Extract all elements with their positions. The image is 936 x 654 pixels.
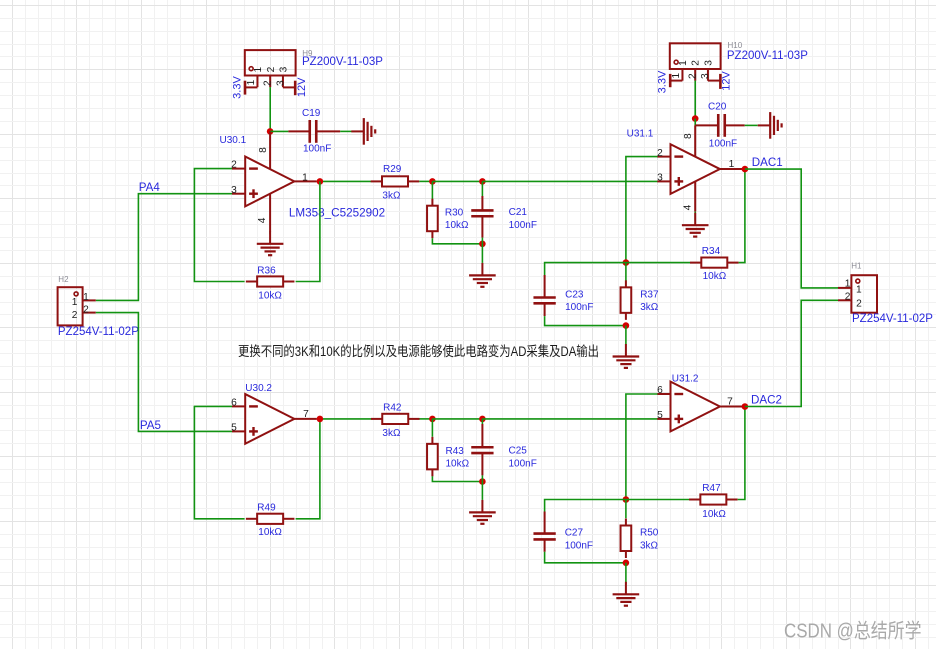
pin number 8 — [258, 147, 269, 153]
svg-text:12V: 12V — [296, 77, 308, 97]
connector H10 pin number 1 — [671, 73, 682, 79]
wire U31.2 in- to node G — [626, 394, 658, 500]
value R30 10k — [445, 220, 469, 231]
svg-text:10kΩ: 10kΩ — [446, 458, 470, 469]
connector H9 name — [302, 56, 383, 68]
capacitor C27 — [533, 512, 555, 552]
junction C25 bottom — [479, 478, 486, 485]
ground — [469, 263, 496, 287]
svg-text:R47: R47 — [702, 483, 721, 494]
svg-text:10kΩ: 10kΩ — [702, 509, 726, 520]
svg-text:1: 1 — [845, 279, 851, 290]
svg-text:R34: R34 — [702, 246, 721, 257]
pin number 3 — [657, 172, 663, 183]
value R42 3k — [382, 428, 401, 439]
wire R47 to DAC2 — [738, 407, 745, 500]
op-amp U30.1 — [232, 131, 317, 231]
wire node D to ground — [625, 326, 627, 345]
power flag 12V — [283, 81, 295, 96]
connector H9 pin name 2 — [266, 66, 277, 72]
wire node Hn to ground — [625, 563, 627, 584]
svg-text:C20: C20 — [708, 101, 727, 112]
wire C19 to ground — [340, 130, 351, 132]
svg-text:U30.1: U30.1 — [220, 135, 247, 146]
pin number 3 — [231, 185, 237, 196]
svg-text:3: 3 — [657, 172, 663, 183]
wire C21 bottom to ground — [481, 238, 483, 263]
resistor R30 — [427, 199, 438, 239]
junction node B — [479, 178, 486, 185]
ground — [351, 118, 375, 145]
svg-text:100nF: 100nF — [509, 458, 537, 469]
wire node G to R47 — [626, 499, 690, 501]
op-amp U31.2 — [657, 382, 742, 432]
value R43 10k — [446, 458, 470, 469]
connector H10 pin name 1 — [678, 60, 689, 66]
label R30 — [445, 208, 464, 219]
svg-text:2: 2 — [691, 60, 702, 66]
power flag 3.3V — [670, 74, 682, 87]
wire H9.2 to C19 node — [269, 87, 271, 131]
svg-text:R50: R50 — [640, 528, 659, 539]
svg-text:100nF: 100nF — [509, 220, 537, 231]
svg-text:R30: R30 — [445, 208, 464, 219]
svg-text:3.3V: 3.3V — [232, 76, 244, 99]
svg-text:8: 8 — [258, 147, 269, 153]
label U31.1 — [627, 128, 654, 139]
svg-text:1: 1 — [302, 172, 308, 183]
svg-text:10kΩ: 10kΩ — [258, 527, 282, 538]
capacitor C25 — [471, 424, 493, 475]
wire pin4 to ground — [269, 232, 271, 235]
svg-text:7: 7 — [303, 409, 309, 420]
svg-text:10kΩ: 10kΩ — [703, 271, 727, 282]
connector H10 pin number 3 — [700, 73, 711, 79]
connector H9 refdes — [302, 49, 313, 58]
svg-text:2: 2 — [856, 299, 862, 310]
resistor R49 — [246, 514, 295, 524]
svg-text:6: 6 — [657, 385, 663, 396]
power flag 3.3V — [245, 81, 257, 95]
junction DAC1 — [742, 166, 749, 173]
wire node to C19 — [270, 130, 288, 132]
pin number 7 — [303, 409, 309, 420]
label R42 — [383, 403, 402, 414]
wire node C left to C23 — [545, 263, 626, 275]
pin number 8 — [683, 133, 694, 139]
wire node C down to R37 — [625, 263, 627, 282]
pin number 1 — [302, 172, 308, 183]
pin number 2 — [231, 160, 237, 171]
junction node G — [623, 496, 630, 503]
svg-text:100nF: 100nF — [565, 541, 593, 552]
connector H10 pin name 2 — [691, 60, 702, 66]
svg-text:C19: C19 — [302, 108, 321, 119]
pin number 5 — [657, 410, 663, 421]
value C19 100nF — [303, 144, 331, 155]
svg-text:PA4: PA4 — [139, 181, 161, 194]
svg-text:C23: C23 — [565, 290, 584, 301]
wire DAC2 to H1.2 — [745, 300, 838, 406]
resistor R36 — [246, 276, 295, 286]
annotation text — [238, 343, 599, 359]
junction node C — [623, 259, 630, 266]
label R34 — [702, 246, 721, 257]
value R37 3k — [640, 302, 659, 313]
svg-text:100nF: 100nF — [709, 138, 737, 149]
ground — [682, 213, 709, 237]
label R29 — [383, 164, 402, 175]
resistor R47 — [689, 494, 738, 504]
ground — [613, 344, 640, 368]
svg-text:R37: R37 — [640, 290, 659, 301]
wire node A to node B — [432, 180, 482, 182]
wire C25 bottom to ground — [481, 475, 483, 500]
wire node A down to R30 — [431, 181, 433, 199]
connector H10 name — [727, 50, 808, 62]
svg-text:5: 5 — [657, 410, 663, 421]
connector H10 refdes — [728, 41, 743, 50]
junction node Hn — [623, 560, 630, 567]
wire DAC1 to H1.1 — [745, 169, 838, 288]
resistor R42 — [371, 414, 420, 424]
svg-text:R43: R43 — [446, 446, 465, 457]
wire PA4 — [96, 194, 232, 301]
connector H10 pin number 2 — [688, 73, 699, 79]
svg-text:7: 7 — [727, 397, 733, 408]
junction DAC2 — [742, 403, 749, 410]
value R49 10k — [258, 527, 282, 538]
svg-text:2: 2 — [845, 292, 851, 303]
junction U30.2 output — [317, 416, 324, 423]
value R36 10k — [258, 291, 282, 302]
pin number 2 — [657, 148, 663, 159]
label C25 — [509, 446, 528, 457]
pin number 1 — [729, 159, 735, 170]
net label 3.3V — [232, 76, 244, 99]
ground — [469, 500, 496, 524]
junction node F — [479, 416, 486, 423]
svg-text:3: 3 — [278, 66, 289, 72]
svg-text:3kΩ: 3kΩ — [382, 191, 401, 202]
connector H1 pin name 2 — [856, 299, 862, 310]
connector H1 pin number 1 — [845, 279, 851, 290]
connector H9 pin number 2 — [263, 80, 274, 86]
svg-text:3kΩ: 3kΩ — [640, 541, 659, 552]
pin number 4 — [257, 217, 268, 223]
net label PA4 — [139, 181, 161, 194]
svg-text:H2: H2 — [58, 275, 69, 284]
svg-text:4: 4 — [257, 217, 268, 223]
svg-text:12V: 12V — [721, 71, 733, 91]
ground — [613, 582, 640, 606]
watermark — [784, 620, 922, 643]
svg-text:R49: R49 — [257, 502, 276, 513]
wire node to C20 tee — [694, 119, 696, 126]
connector H9 pin number 1 — [246, 79, 257, 85]
connector H2 refdes — [58, 275, 69, 284]
connector H1 pin number 2 — [845, 292, 851, 303]
svg-text:C27: C27 — [565, 528, 584, 539]
value C23 100nF — [565, 302, 593, 313]
svg-text:2: 2 — [83, 305, 89, 316]
svg-text:U30.2: U30.2 — [245, 383, 272, 394]
wire R34 to DAC1 — [739, 169, 745, 263]
label U30.2 — [245, 383, 272, 394]
net label 12V — [721, 71, 733, 91]
value C27 100nF — [565, 541, 593, 552]
junction U30.1 output — [317, 178, 324, 185]
label U31.2 — [672, 374, 699, 385]
label C21 — [509, 207, 528, 218]
svg-text:CSDN @总结所学: CSDN @总结所学 — [784, 620, 922, 643]
connector H1 refdes — [851, 262, 862, 271]
resistor R29 — [371, 176, 420, 186]
op-amp U31.1 — [657, 125, 742, 211]
net label PA5 — [140, 419, 161, 432]
label R43 — [446, 446, 465, 457]
resistor R37 — [621, 280, 632, 320]
svg-text:PZ200V-11-03P: PZ200V-11-03P — [302, 56, 383, 68]
svg-text:3kΩ: 3kΩ — [382, 428, 401, 439]
connector H9 pin name 3 — [278, 66, 289, 72]
resistor R50 — [621, 519, 632, 559]
svg-text:U31.2: U31.2 — [672, 374, 699, 385]
junction node V+ U31.1 — [692, 115, 699, 122]
svg-text:PZ200V-11-03P: PZ200V-11-03P — [727, 50, 808, 62]
power flag 12V — [708, 74, 721, 89]
svg-text:3.3V: 3.3V — [657, 70, 669, 93]
label R37 — [640, 290, 659, 301]
capacitor C19 — [288, 120, 340, 143]
svg-text:1: 1 — [72, 297, 78, 308]
svg-text:1: 1 — [671, 73, 682, 79]
connector H2 pin number 1 — [83, 292, 89, 303]
junction node V+ U30.1 — [267, 128, 274, 135]
connector H1 — [838, 275, 877, 313]
wire node B to U31.1 in+ — [482, 180, 657, 182]
svg-text:10kΩ: 10kΩ — [258, 291, 282, 302]
connector H9 pin name 1 — [253, 67, 264, 73]
label C20 — [708, 101, 727, 112]
svg-text:PA5: PA5 — [140, 419, 161, 432]
wire R49 to U30.2 output — [296, 419, 320, 519]
pin number 4 — [683, 204, 694, 210]
pin number 6 — [657, 385, 663, 396]
pin number 6 — [231, 397, 237, 408]
label R50 — [640, 528, 659, 539]
wire PA5 — [96, 313, 232, 432]
connector H2 name — [58, 326, 139, 338]
wire node G down to R50 — [625, 500, 627, 519]
svg-text:10kΩ: 10kΩ — [445, 220, 469, 231]
junction node D — [623, 322, 630, 329]
svg-text:1: 1 — [83, 292, 89, 303]
svg-text:5: 5 — [231, 423, 237, 434]
wire R29 to node A — [419, 180, 432, 182]
net label DAC1 — [752, 156, 783, 169]
label R49 — [257, 502, 276, 513]
wire C23 bottom to node D — [545, 316, 626, 326]
value R34 10k — [703, 271, 727, 282]
value C20 100nF — [709, 138, 737, 149]
junction C21 bottom — [479, 241, 486, 248]
svg-text:3: 3 — [231, 185, 237, 196]
connector H10 pin name 3 — [703, 60, 714, 66]
value R50 3k — [640, 541, 659, 552]
wire R42 to node E — [420, 418, 433, 420]
svg-text:6: 6 — [231, 397, 237, 408]
wire U30.2 out to R42 — [323, 418, 371, 420]
wire node G left to C27 — [545, 500, 626, 512]
wire U30.2 in- to R49 loop — [194, 406, 244, 518]
wire node C to R34 — [626, 262, 690, 264]
label R36 — [257, 265, 276, 276]
svg-text:2: 2 — [657, 148, 663, 159]
wire node F down to C25 — [481, 419, 483, 424]
wire U31.1 pin4 to ground — [694, 212, 696, 221]
svg-text:1: 1 — [246, 79, 257, 85]
svg-text:H1: H1 — [851, 262, 862, 271]
svg-text:3: 3 — [703, 60, 714, 66]
svg-text:2: 2 — [266, 66, 277, 72]
connector H2 pin name 1 — [72, 297, 78, 308]
connector H2 — [58, 287, 96, 325]
svg-text:1: 1 — [729, 159, 735, 170]
wire U30.1 in- to R36 loop — [194, 169, 244, 282]
value C25 100nF — [509, 458, 537, 469]
label C23 — [565, 290, 584, 301]
op-amp U30.2 — [232, 394, 317, 444]
svg-text:100nF: 100nF — [303, 144, 331, 155]
wire node B down to C21 — [481, 181, 483, 196]
wire R43 to bottom rail — [432, 476, 482, 481]
svg-text:更换不同的3K和10K的比例以及电源能够使此电路变为AD采集: 更换不同的3K和10K的比例以及电源能够使此电路变为AD采集及DA输出 — [238, 343, 599, 359]
svg-text:2: 2 — [231, 160, 237, 171]
svg-text:3kΩ: 3kΩ — [640, 302, 659, 313]
wire U30.1 out to R29 — [323, 180, 371, 182]
label C27 — [565, 528, 584, 539]
label C19 — [302, 108, 321, 119]
pin number 7 — [727, 397, 733, 408]
svg-text:C25: C25 — [509, 446, 528, 457]
resistor R43 — [427, 437, 438, 477]
svg-text:PZ254V-11-02P: PZ254V-11-02P — [58, 326, 139, 338]
svg-text:3: 3 — [275, 80, 286, 86]
svg-text:H10: H10 — [728, 41, 743, 50]
svg-text:C21: C21 — [509, 207, 528, 218]
capacitor C21 — [471, 196, 493, 238]
svg-text:1: 1 — [678, 60, 689, 66]
svg-text:4: 4 — [683, 204, 694, 210]
net label 12V — [296, 77, 308, 97]
wire node E down to R43 — [431, 419, 433, 437]
capacitor C23 — [533, 275, 555, 316]
wire node F to U31.2 in+ — [482, 418, 657, 420]
capacitor C20 — [695, 114, 745, 137]
ground — [257, 231, 284, 255]
label U30.1 — [220, 135, 247, 146]
svg-text:3: 3 — [700, 73, 711, 79]
wire R36 to U30.1 output — [296, 181, 320, 281]
wire R30 to bottom rail — [432, 238, 482, 244]
connector H1 pin name 1 — [856, 285, 862, 296]
connector H9 pin number 3 — [275, 80, 286, 86]
value R47 10k — [702, 509, 726, 520]
svg-text:8: 8 — [683, 133, 694, 139]
svg-text:LM358_C5252902: LM358_C5252902 — [289, 206, 385, 219]
net label 3.3V — [657, 70, 669, 93]
svg-text:R29: R29 — [383, 164, 402, 175]
svg-text:2: 2 — [263, 80, 274, 86]
svg-text:PZ254V-11-02P: PZ254V-11-02P — [852, 313, 933, 325]
svg-text:DAC2: DAC2 — [751, 394, 782, 407]
svg-text:DAC1: DAC1 — [752, 156, 783, 169]
svg-text:1: 1 — [856, 285, 862, 296]
connector H9 — [245, 50, 296, 87]
label R47 — [702, 483, 721, 494]
svg-text:U31.1: U31.1 — [627, 128, 654, 139]
wire node E to node F — [432, 418, 482, 420]
svg-text:2: 2 — [688, 73, 699, 79]
connector H2 pin name 2 — [72, 310, 78, 321]
value R29 3k — [382, 191, 401, 202]
junction node E — [429, 416, 436, 423]
junction node A — [429, 178, 436, 185]
net label DAC2 — [751, 394, 782, 407]
svg-text:R36: R36 — [257, 265, 276, 276]
value C21 100nF — [509, 220, 537, 231]
svg-text:1: 1 — [253, 67, 264, 73]
connector H2 pin number 2 — [83, 305, 89, 316]
pin number 5 — [231, 423, 237, 434]
wire C20 to ground — [745, 124, 758, 126]
wire U31.1 in- to node C — [626, 157, 658, 263]
svg-text:2: 2 — [72, 310, 78, 321]
connector H10 — [670, 43, 721, 80]
wire C27 bottom to node Hn — [545, 552, 626, 563]
svg-text:100nF: 100nF — [565, 302, 593, 313]
resistor R34 — [690, 258, 739, 268]
connector H1 name — [852, 313, 933, 325]
ground — [758, 112, 782, 139]
wire H10.2 down — [694, 81, 696, 119]
svg-text:R42: R42 — [383, 403, 402, 414]
part name LM358_C5252902 — [289, 206, 385, 219]
